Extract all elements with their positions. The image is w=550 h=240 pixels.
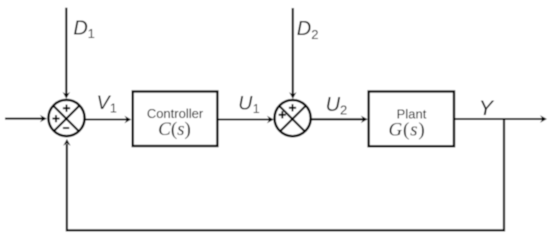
sign + top of S2 [289,104,296,111]
sign + left of S2 [279,111,286,118]
svg-text:D: D [297,18,311,40]
label V1 [97,92,117,116]
svg-text:1: 1 [88,26,95,41]
wire U2: S2 to Plant [312,116,368,123]
svg-text:2: 2 [340,103,347,118]
label Controller [147,106,204,121]
svg-text:U: U [238,92,253,114]
wire V1: S1 to Controller [86,116,132,123]
wire Y: Plant output arrow [455,115,547,122]
label Plant [397,106,427,121]
sign + top of S1 [63,105,70,112]
block Controller [133,92,218,147]
wire: reference input arrow [5,115,47,122]
label U1 [238,92,259,116]
svg-text:Y: Y [479,96,495,120]
wire U1: Controller to S2 [219,116,274,123]
summing junction S1 [48,100,84,136]
wire: feedback path from branch node to S1 [63,120,504,231]
block Plant [369,92,454,147]
svg-text:1: 1 [110,101,117,115]
label D2 [297,18,319,42]
svg-text:G(s): G(s) [388,120,425,141]
svg-text:1: 1 [253,102,260,116]
label C(s) [158,119,191,140]
svg-text:2: 2 [311,27,318,42]
label Y [479,96,495,120]
label U2 [326,94,348,117]
wire: disturbance D2 drop into S2 [289,8,296,99]
sign + left of S1 [52,115,59,122]
wire: disturbance D1 drop into S1 [63,8,70,99]
label G(s) [388,120,425,141]
svg-text:U: U [326,94,341,116]
svg-text:C(s): C(s) [158,119,191,140]
svg-text:D: D [73,17,87,39]
summing junction S2 [275,100,311,136]
label D1 [73,17,94,41]
sign - bottom of S1 [63,127,69,129]
